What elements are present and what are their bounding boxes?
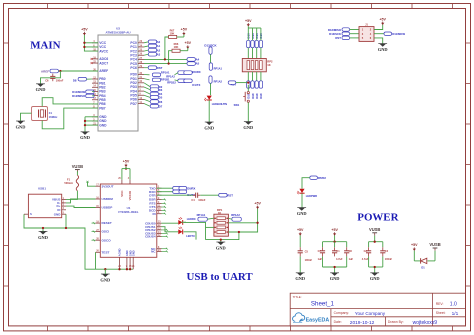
capacitor C6: [45, 74, 64, 83]
ground below cap bank: [330, 273, 340, 281]
title block date: [334, 320, 375, 326]
section title POWER: [357, 211, 398, 223]
svg-text:+5V: +5V: [181, 28, 188, 32]
wire crystal to PB6: [42, 98, 98, 107]
section title USB to UART: [187, 271, 254, 283]
wire USB gnd net: [24, 214, 133, 269]
wire AREF down to cap: [41, 71, 61, 84]
ic U1 left pins: [86, 181, 113, 255]
net label RP1B2 text: [167, 81, 176, 85]
junction gnd rail 4: [129, 268, 131, 270]
title block frame: [290, 293, 465, 326]
svg-text:+5V: +5V: [185, 41, 192, 45]
svg-text:PD7: PD7: [130, 102, 137, 106]
svg-text:RST: RST: [157, 66, 163, 70]
junction RST column: [247, 81, 249, 83]
svg-text:+5V: +5V: [297, 228, 304, 232]
svg-text:GND: GND: [99, 123, 107, 127]
svg-text:ADC7: ADC7: [99, 61, 108, 65]
svg-text:D0/RX: D0/RX: [192, 70, 200, 74]
wire column to switch: [247, 85, 249, 92]
ground below LEDBUILTIN: [204, 122, 214, 130]
svg-text:D12/MISO: D12/MISO: [72, 94, 86, 98]
svg-text:GND: GND: [16, 124, 26, 129]
svg-text:GND: GND: [330, 276, 340, 281]
svg-text:3V3OUT: 3V3OUT: [102, 184, 114, 188]
wire LEDRX to loop: [181, 221, 186, 223]
net label RP1A2 vertical: [209, 76, 223, 84]
wire PC4 to A4: [144, 58, 187, 60]
wire USB D- to USBDM: [66, 199, 96, 203]
svg-text:PB7: PB7: [99, 106, 106, 110]
power +5V right of RP1: [254, 201, 261, 209]
wire rp1 gnd drop: [220, 240, 222, 242]
ground below C5: [295, 273, 305, 281]
svg-text:100nF: 100nF: [385, 258, 393, 261]
svg-text:RST: RST: [227, 193, 233, 197]
led LEDRX: [162, 217, 196, 225]
mcu U3 ATMEGA328P-AU body: [98, 27, 138, 132]
svg-text:RP1A1: RP1A1: [197, 213, 206, 217]
net label RP1A1 uart: [197, 213, 214, 221]
svg-text:GND: GND: [243, 125, 253, 130]
wire LEDPWR to gnd: [301, 193, 303, 207]
svg-text:VCCIO: VCCIO: [128, 190, 132, 200]
svg-text:PC6: PC6: [130, 66, 137, 70]
svg-text:GND: GND: [80, 135, 90, 140]
isp header J1: [359, 24, 374, 42]
crystal X1: [32, 107, 59, 121]
svg-text:VUSB: VUSB: [72, 164, 83, 169]
svg-text:100nF: 100nF: [198, 199, 206, 202]
svg-text:C5: C5: [305, 250, 309, 254]
junction usb gnd2: [42, 227, 44, 229]
svg-text:100nF: 100nF: [305, 258, 313, 262]
capacitor C7: [318, 247, 326, 261]
net labels above RP2 (vertical): [247, 33, 264, 48]
mcu U3 left pins: [91, 40, 109, 127]
wire RP1A2 to led: [210, 83, 212, 95]
capacitor C5: [298, 235, 313, 272]
wire +5V to VCC pins: [84, 35, 98, 51]
wire led to gnd: [208, 100, 210, 122]
svg-text:GND: GND: [204, 125, 214, 130]
power +5V at R06: [180, 41, 192, 51]
junction AREF: [59, 70, 61, 72]
svg-text:GND: GND: [370, 276, 380, 281]
ic U1 bottom pins: [118, 248, 136, 269]
net labels below RP2 (vertical): [247, 72, 264, 99]
svg-text:GND: GND: [100, 277, 110, 282]
wires J1 left: [350, 30, 359, 38]
svg-text:4.7uF: 4.7uF: [362, 258, 369, 261]
net label D12/MISO: [72, 94, 94, 98]
svg-text:MAIN: MAIN: [30, 40, 60, 52]
resistor R07: [169, 28, 177, 38]
net labels D2-D7: [144, 83, 163, 109]
svg-text:1.0: 1.0: [450, 301, 457, 307]
svg-text:RI: RI: [153, 212, 156, 216]
svg-text:ATMEGA328P-AU: ATMEGA328P-AU: [105, 31, 130, 35]
mcu U3 right pins: [130, 40, 144, 106]
net port pair D0/RX: [175, 70, 201, 75]
capacitor C4: [157, 193, 206, 202]
ground left of crystal: [16, 121, 26, 129]
net label RST left of RP2: [228, 81, 236, 86]
svg-text:GND: GND: [36, 87, 46, 92]
net label RST at J1: [335, 36, 349, 40]
svg-text:RP1B2: RP1B2: [167, 81, 176, 85]
svg-text:1/1: 1/1: [452, 311, 459, 317]
junction R07/A4: [164, 58, 166, 60]
net label D11/MOSI at J1: [374, 32, 405, 36]
power +5V above mcu: [81, 28, 88, 36]
svg-text:LEDPWR: LEDPWR: [306, 194, 317, 198]
svg-text:+5V: +5V: [123, 159, 130, 163]
svg-text:10K: 10K: [170, 31, 175, 35]
net label RST at PC6: [144, 66, 163, 70]
svg-text:RP1A1: RP1A1: [214, 66, 223, 70]
svg-text:1K: 1K: [267, 63, 270, 67]
ground below vusb caps: [370, 273, 380, 281]
ic U1 right pins: [145, 186, 161, 253]
junction cap bank top: [333, 241, 335, 243]
svg-text:USB to UART: USB to UART: [187, 271, 254, 283]
svg-text:+5V: +5V: [411, 243, 418, 247]
svg-text:C6: C6: [45, 79, 49, 83]
easyeda logo: [293, 313, 330, 324]
ground below LEDPWR: [297, 208, 307, 216]
svg-text:USBDP: USBDP: [102, 206, 113, 210]
svg-text:LEDRX: LEDRX: [187, 217, 196, 221]
junction rp1 gnd: [220, 238, 222, 240]
nc stubs U1 right: [162, 199, 167, 215]
section title MAIN: [30, 40, 60, 52]
junction R06/A5: [167, 62, 169, 64]
svg-text:AREF: AREF: [99, 69, 108, 73]
svg-text:RST: RST: [335, 36, 341, 40]
svg-text:TITLE:: TITLE:: [293, 295, 302, 299]
resistor pack RP2: [242, 59, 273, 72]
wire crystal to gnd: [21, 113, 32, 121]
wire usb gnd stub: [42, 228, 44, 231]
net label RP1A1 vertical: [209, 63, 222, 71]
power +5V at R07: [177, 28, 188, 37]
capacitor C2: [362, 247, 371, 261]
net label RST uart: [200, 193, 233, 197]
resistor pack RP1: [214, 208, 229, 236]
switch SW1: [234, 92, 250, 107]
net label D13/SCK at J1: [329, 32, 349, 36]
ground below USB1: [38, 231, 48, 239]
power flag VUSB at cap bank: [369, 227, 380, 236]
svg-text:A5: A5: [196, 62, 200, 66]
svg-text:GND: GND: [131, 250, 135, 256]
wire +5V to U1: [122, 167, 130, 180]
junction rp1 loop: [238, 231, 240, 233]
svg-text:AGND: AGND: [118, 248, 122, 256]
capacitor C3: [380, 247, 392, 261]
wire crystal to PB7: [42, 108, 98, 129]
svg-text:D1/TX: D1/TX: [192, 83, 200, 87]
svg-text:RP1A1: RP1A1: [161, 70, 170, 74]
wire RST to column: [236, 82, 249, 84]
svg-text:1uF: 1uF: [349, 258, 354, 261]
svg-text:Drawn By:: Drawn By:: [388, 320, 404, 324]
power flag VUSB above fuse: [72, 164, 83, 173]
wire mcu gnd pins: [85, 117, 98, 132]
led LEDTX: [162, 227, 195, 238]
svg-text:S: S: [30, 212, 32, 216]
junction U1 5v: [125, 167, 127, 169]
svg-text:2019-10-12: 2019-10-12: [350, 320, 375, 326]
svg-text:CBUS4: CBUS4: [145, 235, 156, 239]
svg-text:D5: D5: [159, 96, 163, 100]
junction VCC2: [83, 46, 85, 48]
net label AREF: [41, 69, 58, 73]
svg-text:Your Company: Your Company: [355, 311, 386, 316]
svg-text:4.7uF: 4.7uF: [336, 258, 343, 261]
svg-text:TEST: TEST: [102, 250, 110, 254]
junction mcu gnd1: [84, 120, 86, 122]
ground below C6: [36, 84, 46, 92]
power +5V at J1: [379, 17, 386, 25]
capacitor C8: [344, 247, 353, 261]
led LEDPWR: [297, 189, 317, 198]
usb connector USB1 pins: [24, 198, 66, 217]
ground below SW1: [243, 122, 253, 130]
power +5V at cap bank: [331, 228, 338, 236]
junction gnd rail 3: [126, 268, 128, 270]
junction vusb top: [374, 241, 376, 243]
svg-text:+5V: +5V: [245, 19, 252, 23]
svg-text:GND: GND: [297, 211, 307, 216]
wire +5V to J1 pin2: [374, 25, 383, 30]
wire J1 pin6 to gnd: [374, 38, 383, 44]
svg-text:16MHz: 16MHz: [49, 115, 58, 119]
svg-text:+5V: +5V: [379, 17, 386, 21]
wire ledrx right: [184, 222, 206, 239]
svg-text:OSCI: OSCI: [102, 230, 110, 234]
wire +5V to RP2 tops: [248, 26, 261, 28]
wire vusb cap bus: [369, 236, 383, 273]
ground below RP1: [216, 242, 226, 250]
svg-text:GND: GND: [216, 245, 226, 250]
junction vusb bottom: [374, 266, 376, 268]
led LEDBUILTIN: [204, 96, 227, 106]
junction gnd rail 1: [104, 268, 106, 270]
title block REV: [436, 301, 457, 307]
svg-text:wojtekxxx9: wojtekxxx9: [413, 320, 438, 326]
svg-text:Company:: Company:: [334, 311, 350, 315]
wires RP2 flags to box: [248, 28, 261, 59]
svg-text:1uF: 1uF: [318, 258, 323, 261]
net port pair D1/TX uart: [157, 190, 195, 197]
net label RP1B1: [144, 77, 170, 81]
net label A4: [187, 58, 200, 62]
svg-text:REV:: REV:: [436, 302, 444, 306]
junction mcu gnd2: [84, 124, 86, 126]
net label LEDPWR flag: [310, 176, 327, 180]
svg-text:RESET: RESET: [102, 221, 112, 225]
svg-text:D10: D10: [259, 93, 263, 99]
wire fuse to VBUS: [66, 191, 77, 200]
capacitor C1: [332, 242, 343, 262]
svg-text:EasyEDA: EasyEDA: [306, 318, 330, 324]
svg-text:USBDM: USBDM: [102, 197, 114, 201]
title block TITLE: [293, 295, 335, 308]
svg-text:FT232RL-REEL: FT232RL-REEL: [118, 210, 138, 214]
wire flag to LEDPWR: [302, 178, 310, 189]
svg-text:NC: NC: [151, 250, 156, 254]
svg-text:D11/MOSI: D11/MOSI: [392, 32, 405, 36]
wire rp1 bottom loop: [206, 232, 239, 240]
power +5V above RP2: [245, 19, 252, 27]
power +5V above U1: [123, 159, 130, 167]
svg-text:+5V: +5V: [254, 201, 261, 205]
svg-text:+5V: +5V: [81, 28, 88, 32]
junction VCC1: [83, 42, 85, 44]
wire cap bank bus: [323, 235, 347, 272]
svg-text:500mA: 500mA: [64, 181, 73, 185]
svg-text:D8: D8: [73, 78, 77, 82]
svg-text:A3: A3: [157, 52, 161, 56]
junction cap bank bottom: [333, 266, 335, 268]
nc stubs U1 lower right: [162, 229, 169, 253]
usb connector USB1 body: [28, 187, 61, 218]
diode D1: [414, 251, 435, 270]
net label A5: [187, 62, 200, 66]
svg-text:GND: GND: [378, 47, 388, 52]
svg-text:RP2D2: RP2D2: [318, 177, 327, 180]
svg-text:D6: D6: [159, 100, 163, 104]
svg-text:Date:: Date:: [334, 320, 342, 324]
svg-text:VUSB: VUSB: [429, 242, 440, 247]
wire R07 left: [165, 37, 169, 59]
wire switch to gnd: [247, 102, 249, 121]
svg-text:VCC: VCC: [120, 190, 124, 197]
svg-text:SW1: SW1: [234, 103, 240, 107]
svg-text:RP1A2: RP1A2: [214, 79, 223, 83]
svg-text:AREF: AREF: [41, 69, 49, 73]
power +5V at C5: [297, 228, 304, 236]
wire ledtx right: [184, 232, 197, 240]
power flag VUSB at D1: [429, 242, 440, 251]
net port pair D0/RX uart: [157, 186, 196, 190]
net label D8: [73, 77, 92, 82]
junction usb gnd: [65, 227, 67, 229]
net label RP1A2 uart: [228, 213, 241, 221]
svg-text:D0/RX: D0/RX: [187, 186, 195, 190]
ic U1 top pins: [118, 177, 132, 201]
net label RP1A1: [144, 70, 170, 76]
wire TEST to gnd rail: [95, 252, 97, 269]
wire R06 left: [169, 51, 172, 64]
svg-text:10K: 10K: [174, 45, 179, 49]
net port pair D1/TX: [175, 79, 201, 87]
title block sheet: [436, 311, 459, 317]
net label D11/MOSI: [72, 90, 94, 94]
svg-text:USB1: USB1: [38, 187, 46, 191]
svg-text:POWER: POWER: [357, 211, 398, 223]
net label D12/MISO at J1: [328, 28, 350, 32]
svg-text:D4: D4: [159, 92, 163, 96]
ground below U1: [100, 269, 110, 282]
wire AREF to mcu: [58, 70, 98, 72]
ground below mcu: [80, 132, 90, 140]
net labels A0-A3: [144, 40, 161, 56]
ic U1 FT232RL body: [100, 184, 157, 257]
svg-text:GND: GND: [54, 212, 62, 216]
svg-text:LEDBUILTIN: LEDBUILTIN: [212, 102, 227, 106]
svg-text:D7: D7: [159, 104, 163, 108]
power +5V at D1: [411, 243, 418, 251]
wire D13 to RP1A1 flag: [210, 54, 212, 62]
svg-text:D1: D1: [421, 265, 425, 269]
resistor R06: [172, 42, 180, 52]
title block company: [334, 311, 386, 316]
svg-text:RP1A2: RP1A2: [231, 213, 240, 217]
svg-text:GND: GND: [295, 276, 305, 281]
ground at J1: [378, 44, 388, 52]
title block drawn by: [388, 320, 437, 326]
svg-text:100nF: 100nF: [56, 79, 64, 83]
wire rp1 row3 loop: [206, 226, 214, 228]
svg-text:Sheet:: Sheet:: [436, 311, 446, 315]
svg-text:VUSB: VUSB: [369, 227, 380, 232]
wire +5V rp1: [228, 209, 257, 232]
svg-text:GND: GND: [38, 235, 48, 240]
svg-text:LEDTX: LEDTX: [186, 234, 195, 238]
junction rp1 +5v: [256, 222, 258, 224]
svg-text:AVCC: AVCC: [99, 49, 109, 53]
svg-text:+5V: +5V: [331, 228, 338, 232]
svg-text:OSCO: OSCO: [102, 238, 112, 242]
junction gnd rail 2: [118, 268, 120, 270]
net label RP1A2 text: [166, 74, 175, 78]
net label D13/SCK: [204, 44, 217, 55]
wire PC5 to A5: [144, 63, 187, 65]
svg-text:Sheet_1: Sheet_1: [311, 301, 335, 308]
fuse F1: [64, 171, 78, 191]
svg-text:D3: D3: [159, 88, 163, 92]
wire USB D+ to USBDP: [66, 206, 96, 207]
